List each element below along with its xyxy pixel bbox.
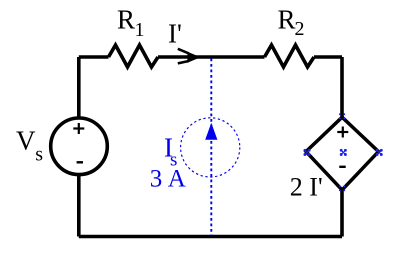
svg-text:1: 1	[135, 19, 145, 41]
svg-text:s: s	[35, 143, 43, 165]
node marker bottom of diamond	[339, 185, 345, 191]
current arrow I'	[178, 49, 199, 64]
wire top right segment	[314, 55, 342, 59]
svg-text:I': I'	[168, 18, 182, 48]
voltage source Vs circle	[51, 118, 108, 175]
resistor R2	[265, 45, 315, 67]
voltage source plus	[73, 123, 84, 134]
svg-text:R: R	[278, 5, 296, 35]
wire left vertical	[77, 57, 81, 237]
svg-text:V: V	[16, 126, 36, 156]
wire bottom	[79, 235, 342, 239]
dependent source minus	[339, 166, 345, 168]
node marker left of diamond	[304, 149, 310, 155]
node marker top of diamond	[339, 113, 345, 119]
svg-text:2: 2	[295, 18, 305, 40]
dashed current-source net line	[210, 59, 212, 236]
wire top left segment	[79, 55, 109, 59]
current source Is circle	[181, 118, 240, 177]
svg-text:2: 2	[290, 173, 303, 202]
node marker center of diamond	[340, 149, 346, 155]
dependent source 2I' diamond	[306, 117, 379, 190]
wire right vertical	[340, 57, 344, 237]
resistor R1	[109, 45, 159, 67]
svg-text:A: A	[168, 166, 186, 193]
svg-text:I': I'	[309, 173, 322, 202]
voltage source minus	[77, 161, 83, 163]
dependent source plus	[337, 127, 348, 138]
wire top middle segment	[158, 55, 265, 59]
current source arrow	[205, 123, 217, 140]
svg-text:3: 3	[150, 166, 163, 193]
node marker right of diamond	[376, 149, 382, 155]
svg-text:R: R	[117, 5, 135, 35]
